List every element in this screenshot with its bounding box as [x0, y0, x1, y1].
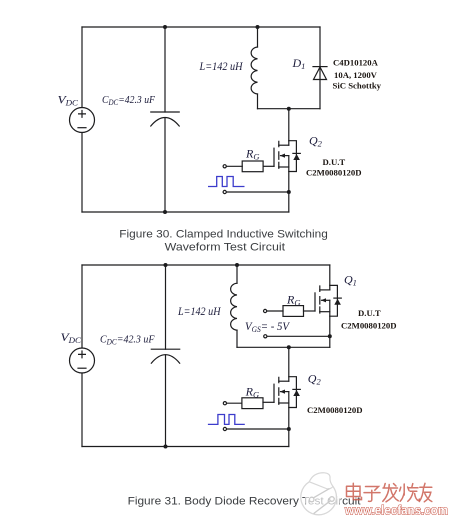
svg-text:C2M0080120D: C2M0080120D [307, 405, 363, 415]
wire: source return lead (fig31) [227, 428, 289, 430]
svg-text:C2M0080120D: C2M0080120D [341, 320, 397, 330]
terminal: Q1 gate input circle [264, 309, 267, 312]
wire: capacitor branch lower (fig31) [165, 355, 167, 447]
mosfet Q1 body line [322, 299, 330, 301]
wire: inductor bottom lead (fig30) [257, 94, 259, 109]
terminal: gate input circle (fig30) [223, 165, 226, 168]
Q2 body diode triangle (fig30) [293, 154, 300, 160]
inductor L=142uH coil (fig31) [231, 283, 237, 330]
wire: capacitor branch lower (fig30) [164, 118, 166, 212]
glyph 烧 [400, 484, 420, 502]
svg-text:C4D10120A: C4D10120A [333, 58, 379, 68]
wire: RG input lead (Q1) [267, 310, 283, 312]
voltage source V_DC (fig31) [70, 348, 95, 373]
mosfet Q1 gate bar [314, 293, 316, 311]
V_DC plus sign (fig31) [79, 351, 86, 358]
node: inductor top junction (fig30) [256, 25, 260, 29]
svg-text:D.U.T: D.U.T [358, 308, 381, 318]
terminal: gate input circle (fig31) [223, 402, 226, 405]
svg-text:Waveform Test Circuit: Waveform Test Circuit [165, 241, 286, 253]
svg-text:10A, 1200V: 10A, 1200V [334, 70, 378, 80]
wire: inductor top lead (fig30) [257, 27, 259, 47]
wire: left branch lower (VDC to bottom bus) [81, 133, 83, 213]
wire: diode branch upper (fig30) [319, 27, 321, 109]
mosfet Q1 source horizontal [320, 311, 330, 313]
resistor R_G (Q1) [283, 306, 304, 317]
wire: Q1 body-diode branch [330, 285, 338, 316]
pulse waveform (fig31) [208, 415, 245, 425]
resistor R_G (Q2 fig31) [242, 398, 263, 409]
terminal: Q1 source return circle [264, 335, 267, 338]
mosfet Q2 channel segments (fig31) [278, 377, 280, 404]
wire: Q2 body-diode branch (fig30) [289, 141, 297, 172]
wire: top bus of figure 30 [82, 26, 320, 28]
node: source return junction (fig31) [287, 427, 291, 431]
wire: Q2 body-diode branch (fig31) [289, 377, 297, 408]
wire: gate lead from RG to Q2 (fig30) [263, 165, 274, 167]
Q2 body diode cathode bar (fig31) [293, 388, 300, 390]
wire: mid bus from inductor to Q1 source (fig31) [237, 346, 330, 348]
node: capacitor top junction (fig31) [164, 263, 168, 267]
wire: left branch upper (VDC to top bus) [81, 27, 83, 108]
terminal: source return circle (fig30) [223, 190, 226, 193]
glyph 友 [419, 483, 432, 502]
wire: source return lead (fig30) [227, 191, 289, 193]
resistor R_G (fig30) [242, 161, 263, 172]
mosfet Q1 channel segments [319, 286, 321, 313]
V_DC plus sign [79, 111, 86, 118]
wire: left branch lower (fig31) [81, 373, 83, 447]
Q1 body diode triangle [334, 299, 341, 305]
wire: bottom bus of figure 31 [82, 446, 289, 448]
wire: bottom bus of figure 30 [82, 211, 289, 213]
node: source return junction (fig30) [287, 190, 291, 194]
pulse waveform (fig30) [208, 177, 245, 187]
V_DC minus sign [78, 127, 86, 129]
wire: Q1 source vertical to mid bus (fig31) [329, 300, 331, 347]
wire: Q2 source vertical to bottom bus (fig31) [288, 392, 290, 447]
watermark text 电子发烧友 [347, 483, 432, 502]
wire: Q2 drain lead down (fig30) [288, 109, 290, 146]
capacitor C_DC curved plate (fig30) [151, 118, 179, 127]
capacitor C_DC top plate (fig30) [151, 111, 179, 113]
voltage source V_DC (fig30) [70, 108, 95, 133]
wire: gate lead from RG to Q1 [304, 310, 316, 312]
wire: capacitor branch upper (fig31) [165, 265, 167, 349]
mosfet Q2 channel segments (fig30) [278, 141, 280, 168]
node: Q2 drain junction on mid bus (fig30) [287, 107, 291, 111]
diode D1 cathode bar [313, 66, 327, 68]
glyph 子 [364, 487, 380, 502]
svg-text:www.elecfans.com: www.elecfans.com [344, 504, 448, 518]
diode D1 triangle [314, 67, 327, 80]
mosfet Q2 source horizontal (fig31) [279, 402, 289, 404]
wire: left branch upper (fig31) [81, 265, 83, 348]
node: inductor top junction (fig31) [235, 263, 239, 267]
svg-text:Figure 30. Clamped Inductive S: Figure 30. Clamped Inductive Switching [119, 229, 327, 241]
terminal: source return circle (fig31) [223, 427, 226, 430]
mosfet Q2 gate bar (fig30) [273, 148, 275, 166]
capacitor C_DC top plate (fig31) [151, 348, 179, 350]
wire: Q1 drain lead down from top bus (fig31) [329, 265, 331, 290]
wire: gate lead from RG to Q2 (fig31) [263, 401, 274, 403]
svg-text:L=142 uH: L=142 uH [199, 61, 244, 73]
svg-text:C2M0080120D: C2M0080120D [306, 167, 362, 177]
watermark logo emblem circle [301, 473, 340, 518]
wire: top bus of figure 31 [82, 264, 330, 266]
glyph 电 [347, 483, 362, 499]
mosfet Q2 body line (fig31) [281, 391, 289, 393]
Q1 body diode cathode bar [334, 297, 341, 299]
mosfet Q2 gate bar (fig31) [273, 384, 275, 402]
wire: Q2 drain lead down (fig31) [288, 347, 290, 381]
svg-text:L=142 uH: L=142 uH [177, 306, 221, 318]
wire: Q2 source vertical to bottom bus (fig30) [288, 156, 290, 212]
mosfet Q1 body arrow [321, 298, 326, 302]
V_DC minus sign (fig31) [78, 367, 86, 369]
capacitor C_DC curved plate (fig31) [151, 355, 179, 364]
svg-text:SiC Schottky: SiC Schottky [333, 81, 382, 91]
mosfet Q2 body arrow (fig30) [280, 154, 285, 158]
wire: inductor top lead (fig31) [236, 265, 238, 283]
mosfet Q2 body line (fig30) [281, 155, 289, 157]
wire: RG input lead (Q2 fig31) [227, 402, 242, 404]
node: capacitor bottom junction (fig30) [163, 210, 167, 214]
glyph 发 [383, 484, 399, 502]
wire: mid horizontal bus under inductor/diode (fig30) [258, 108, 321, 110]
wire: capacitor branch upper (fig30) [164, 27, 166, 112]
Q2 body diode triangle (fig31) [293, 390, 300, 396]
mosfet Q2 body arrow (fig31) [280, 390, 285, 394]
node: capacitor bottom junction (fig31) [164, 445, 168, 449]
mosfet Q1 drain horizontal [320, 289, 330, 291]
svg-text:D.U.T: D.U.T [323, 157, 346, 167]
node: Q1 source return junction [328, 334, 332, 338]
Q2 body diode cathode bar (fig30) [293, 152, 300, 154]
node: capacitor top junction (fig30) [163, 25, 167, 29]
wire: inductor bottom lead (fig31) [236, 330, 238, 347]
mosfet Q2 drain horizontal (fig31) [279, 380, 289, 382]
mosfet Q2 source horizontal (fig30) [279, 166, 289, 168]
wire: RG input lead (fig30) [227, 165, 243, 167]
node: Q2 drain junction on mid bus (fig31) [287, 345, 291, 349]
mosfet Q2 drain horizontal (fig30) [279, 144, 289, 146]
wire: Q1 source return lead [267, 335, 330, 337]
inductor L=142uH coil (fig30) [251, 47, 257, 94]
